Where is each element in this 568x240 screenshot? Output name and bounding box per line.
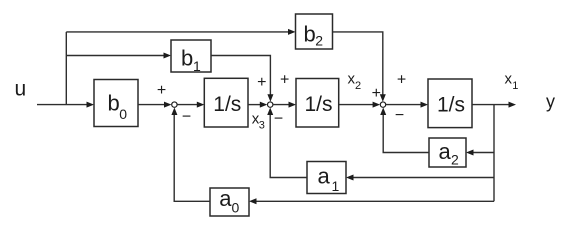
wire: S2 to integrator I2	[273, 104, 289, 106]
svg-text:3: 3	[259, 120, 265, 132]
summing junction S3	[380, 102, 385, 107]
svg-text:2: 2	[355, 80, 361, 92]
block a2	[429, 138, 466, 167]
wire: b0 to summing junction S1	[138, 104, 165, 106]
svg-text:1/s: 1/s	[213, 93, 241, 116]
wire: a1 output up into S2	[270, 114, 307, 178]
wire: feedback into a2	[473, 152, 494, 154]
block integrator I2 (1/s)	[296, 79, 339, 128]
wire: S3 to integrator I3	[386, 104, 422, 106]
arrowhead up into S2	[267, 108, 273, 116]
arrowhead into S3	[373, 102, 381, 108]
svg-text:−: −	[182, 108, 191, 125]
block integrator I1 (1/s)	[204, 78, 248, 127]
wire: a2 output up into S3	[383, 114, 429, 153]
arrowhead into S2	[260, 102, 268, 108]
node x2 label	[348, 71, 362, 92]
arrowhead into b1	[164, 53, 172, 59]
summing junction S2	[268, 102, 273, 107]
svg-text:+: +	[280, 72, 289, 89]
svg-text:+: +	[397, 72, 406, 89]
block b2	[296, 14, 333, 49]
node x3 label	[252, 111, 265, 132]
wire: I2 to summing junction S3	[339, 104, 374, 106]
wire: feedback into a1	[353, 177, 494, 179]
block a0	[210, 186, 249, 216]
svg-text:a: a	[219, 186, 232, 211]
svg-text:+: +	[257, 74, 266, 91]
block integrator I3 (1/s)	[428, 79, 472, 128]
svg-text:−: −	[274, 110, 283, 127]
arrowhead into b0	[87, 102, 95, 108]
svg-text:0: 0	[232, 199, 240, 215]
svg-text:1: 1	[332, 178, 340, 194]
wire: I3 to output y	[472, 104, 510, 106]
svg-text:2: 2	[451, 151, 459, 167]
svg-text:2: 2	[315, 33, 323, 49]
arrowhead down into S3	[380, 94, 386, 102]
arrowhead into b2	[288, 29, 296, 35]
arrowhead into a2	[466, 150, 474, 156]
svg-text:u: u	[15, 78, 27, 101]
svg-text:b: b	[181, 46, 193, 71]
wire: feedback tap down from output	[493, 105, 495, 202]
wire: branch to b1	[66, 55, 164, 57]
svg-text:+: +	[157, 82, 166, 99]
svg-text:b: b	[108, 91, 120, 116]
arrowhead up into S3	[380, 108, 386, 116]
wire: b2 output down into S3	[333, 32, 383, 95]
arrowhead into I1	[197, 102, 205, 108]
block a1	[307, 162, 346, 195]
svg-text:0: 0	[119, 106, 127, 122]
arrowhead up into S1	[171, 108, 177, 116]
svg-text:1: 1	[512, 80, 518, 92]
wire: a0 output up into S1	[174, 114, 210, 201]
arrowhead into a0	[249, 198, 257, 204]
block b1	[171, 40, 211, 74]
summing junction S1	[172, 102, 177, 107]
wire: S1 to integrator I1	[177, 104, 198, 106]
arrowhead at output	[509, 102, 517, 108]
wire: b1 output down into S2	[211, 56, 270, 96]
wire: feedback into a0	[256, 200, 494, 202]
svg-text:b: b	[304, 22, 316, 47]
svg-text:1/s: 1/s	[305, 93, 333, 116]
block b0	[94, 80, 138, 127]
svg-text:1/s: 1/s	[437, 93, 465, 116]
svg-text:−: −	[395, 107, 404, 124]
arrowhead into I2	[289, 102, 297, 108]
arrowhead into a1	[346, 175, 354, 181]
svg-text:a: a	[318, 163, 331, 188]
arrowhead into S1	[164, 102, 172, 108]
wire: top branch to b2	[66, 31, 289, 33]
svg-text:+: +	[372, 85, 381, 102]
arrowhead into I3	[421, 102, 429, 108]
arrowhead down into S2	[267, 94, 273, 102]
wire: I1 to summing junction S2	[248, 104, 261, 106]
svg-text:y: y	[546, 92, 555, 112]
svg-text:a: a	[439, 139, 452, 164]
wire: riser from input line up to feedforward branches	[65, 32, 67, 105]
wire: input u to b0	[37, 104, 87, 106]
svg-text:1: 1	[193, 58, 201, 74]
node x1 label	[505, 71, 519, 92]
